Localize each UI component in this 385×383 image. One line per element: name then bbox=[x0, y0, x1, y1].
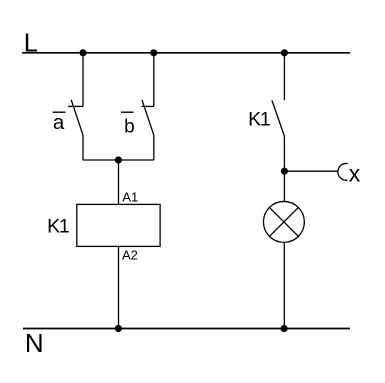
svg-text:A2: A2 bbox=[122, 247, 138, 262]
junction on L rail at contact K1 bbox=[281, 49, 288, 56]
svg-text:x: x bbox=[349, 160, 361, 186]
contact b (NC break contact) bbox=[142, 100, 154, 136]
svg-text:K1: K1 bbox=[248, 108, 270, 130]
wire node A to coil pin A1 bbox=[118, 160, 120, 204]
wire coil pin A2 to N rail bbox=[118, 246, 120, 328]
wire contact b to node A bbox=[153, 135, 155, 160]
wire L rail to contact b bbox=[153, 53, 155, 107]
svg-text:N: N bbox=[25, 328, 44, 358]
terminal socket x (open arc) bbox=[338, 163, 348, 180]
wire node x to lamp bbox=[283, 171, 285, 201]
L rail wire bbox=[22, 52, 350, 54]
svg-text:b: b bbox=[124, 116, 135, 137]
svg-text:K1: K1 bbox=[47, 216, 69, 238]
svg-text:a: a bbox=[53, 111, 65, 134]
junction on N rail at lamp bbox=[281, 325, 288, 332]
contact K1 (NO make contact) bbox=[272, 100, 285, 136]
junction on L rail at contact a bbox=[79, 49, 86, 56]
wire node to terminal x bbox=[284, 170, 337, 172]
junction node A (parallel join) bbox=[115, 156, 122, 163]
wire L rail to contact a bbox=[82, 53, 84, 107]
junction node x branch bbox=[281, 168, 288, 175]
wire contact K1 to node x bbox=[283, 136, 285, 172]
junction on L rail at contact b bbox=[150, 49, 157, 56]
contact a (NC break contact) bbox=[68, 100, 83, 136]
junction on N rail at coil bbox=[115, 325, 122, 332]
lamp (indicator light) bbox=[263, 201, 304, 242]
label a-bar bbox=[53, 111, 66, 134]
label b-bar bbox=[121, 112, 135, 137]
wire lamp to N rail bbox=[283, 242, 285, 328]
svg-text:A1: A1 bbox=[122, 189, 138, 204]
wire contact a to node A bbox=[82, 135, 84, 160]
N rail wire bbox=[23, 328, 350, 330]
wire joining contacts a and b bbox=[83, 159, 154, 161]
svg-text:L: L bbox=[24, 30, 38, 58]
relay coil K1 box bbox=[77, 204, 160, 246]
wire L rail to contact K1 bbox=[283, 53, 285, 100]
